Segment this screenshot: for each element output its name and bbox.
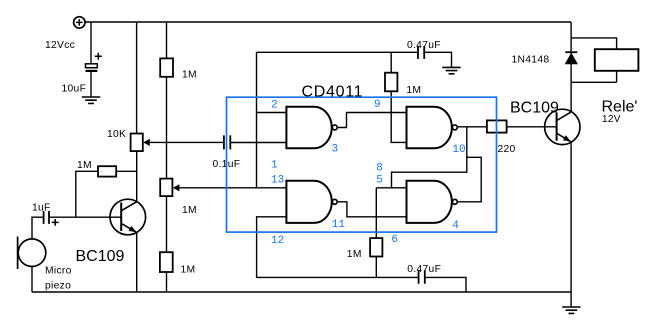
wire R 1M(mid) top lead — [390, 52, 392, 72]
wire relay branch top — [571, 38, 617, 49]
svg-text:1M: 1M — [182, 205, 197, 216]
svg-text:1M: 1M — [77, 160, 92, 171]
svg-text:4: 4 — [452, 220, 459, 232]
transistor Q2 BC109 — [545, 109, 580, 144]
wire relay branch bottom — [571, 71, 617, 83]
capacitor C3 1uF — [44, 211, 59, 226]
wire top supply rail — [85, 21, 571, 23]
resistor R7 220 — [487, 120, 507, 132]
wire R 1M(4) top lead from pin 5 net — [375, 188, 377, 238]
svg-text:12V: 12V — [602, 114, 621, 125]
wire microphone top to 1uF — [32, 217, 43, 239]
wiper arrow 10K — [143, 139, 150, 146]
wire R 1M(mid) bottom to pin 8 — [391, 91, 406, 142]
wire pot P2 bottom to R 1M(3) — [166, 196, 168, 252]
svg-text:1: 1 — [271, 160, 278, 172]
svg-text:13: 13 — [271, 174, 284, 186]
svg-text:3: 3 — [332, 144, 339, 156]
wire microphone bottom to rail — [31, 267, 33, 293]
diode D1 1N4148 — [565, 52, 578, 64]
wire Q1 emitter down — [136, 232, 138, 292]
nand gate U1C — [407, 107, 458, 149]
svg-text:12: 12 — [271, 235, 284, 247]
wire R220 to Q2 base — [507, 126, 557, 128]
svg-text:Rele': Rele' — [602, 98, 638, 115]
wire gate U1C output to R220 — [457, 126, 487, 128]
capacitor C4 0.47uF top — [418, 46, 424, 59]
resistor R4 1M feedback — [98, 166, 116, 176]
wire R 1M(4) bottom lead — [375, 257, 377, 278]
svg-text:BC109: BC109 — [76, 248, 125, 265]
resistor R1 1M — [160, 58, 173, 76]
wire pin 2 input — [257, 112, 287, 114]
wire bottom rail — [32, 291, 571, 293]
svg-text:6: 6 — [391, 234, 398, 246]
potentiometer 10K — [131, 134, 143, 152]
wire pin 12 to bottom timing node — [257, 217, 419, 278]
wire node pins 2-13 vertical — [256, 52, 258, 188]
wire rail drop to R 1M top — [166, 22, 168, 58]
wire pot P2 wiper to pin 13 — [179, 187, 287, 189]
ground symbol main — [562, 307, 580, 313]
wire gate U1B output to gate U1D input — [338, 202, 407, 217]
svg-text:piezo: piezo — [45, 281, 71, 292]
IC outline CD4011 — [227, 97, 497, 232]
nand gate U1B — [286, 181, 337, 223]
wire feedback node up — [76, 171, 98, 217]
wire R 1M(fb) to collector column — [116, 170, 137, 172]
resistor R3 1M — [160, 252, 173, 272]
svg-text:11: 11 — [332, 219, 346, 231]
ground symbol for 0.47uF top — [442, 67, 460, 73]
wire 10uF to ground — [90, 71, 92, 96]
svg-text:1uF: 1uF — [32, 203, 51, 214]
wire R1M bottom to pot P2 top — [166, 77, 168, 179]
wire right vertical rail to collector — [570, 22, 572, 112]
capacitor C5 0.47uF bottom — [419, 270, 425, 283]
emitter arrow Q2 — [563, 135, 571, 141]
wire 10K wiper to 0.1uF — [149, 141, 224, 143]
relay K1 coil — [595, 49, 639, 71]
svg-text:5: 5 — [376, 175, 383, 187]
capacitor C2 0.1uF — [224, 135, 230, 149]
svg-text:0.47uF: 0.47uF — [407, 40, 441, 51]
svg-text:1M: 1M — [182, 70, 197, 81]
svg-text:10uF: 10uF — [62, 84, 87, 95]
wire rail drop to 10K pot — [136, 22, 138, 134]
wire feedback net U1C out down — [392, 127, 467, 188]
nand gate U1D — [407, 181, 458, 223]
ground symbol for 10uF — [82, 97, 100, 103]
svg-text:1M: 1M — [406, 85, 421, 96]
potentiometer P2 1M — [160, 179, 172, 197]
wire 0.47uF(2) to bottom rail — [425, 277, 466, 292]
resistor R6 1M bottom — [370, 238, 382, 256]
svg-text:1N4148: 1N4148 — [512, 55, 550, 66]
svg-text:Micro: Micro — [45, 266, 72, 277]
svg-text:1M: 1M — [347, 249, 362, 260]
wire 1uF to Q1 base — [50, 216, 121, 218]
svg-text:8: 8 — [376, 162, 383, 174]
wire power drop to 10uF — [90, 22, 92, 64]
wire top timing node to 0.47uF — [257, 51, 418, 53]
svg-text:1M: 1M — [181, 265, 196, 276]
svg-text:0.47uF: 0.47uF — [407, 264, 441, 275]
wire R 1M(3) to bottom rail — [166, 272, 168, 292]
wire gate U1D output loop — [457, 157, 481, 202]
microphone Micro piezo — [18, 237, 46, 270]
wiper arrow P2 — [173, 184, 180, 191]
wire 0.47uF to ground — [425, 52, 452, 67]
wire 0.1uF to pin 1 — [230, 142, 286, 144]
resistor R5 1M mid — [385, 73, 397, 92]
wire Q1 collector column — [136, 151, 138, 202]
wire pin 5 input — [376, 187, 406, 189]
wire Q2 emitter to ground — [570, 142, 572, 307]
svg-text:220: 220 — [498, 144, 516, 155]
transistor Q1 BC109 — [110, 199, 146, 235]
power terminal +12V — [74, 17, 85, 28]
svg-text:10K: 10K — [107, 129, 126, 140]
svg-text:2: 2 — [271, 99, 278, 111]
svg-text:9: 9 — [374, 99, 381, 111]
capacitor C1 10uF polarized — [86, 53, 102, 71]
wire gate U1A output to pin 9 — [338, 113, 407, 128]
emitter arrow Q1 — [129, 226, 137, 232]
svg-text:10: 10 — [452, 144, 465, 156]
svg-text:BC109: BC109 — [510, 99, 559, 116]
svg-text:12Vcc: 12Vcc — [45, 40, 75, 51]
nand gate U1A — [286, 107, 337, 149]
